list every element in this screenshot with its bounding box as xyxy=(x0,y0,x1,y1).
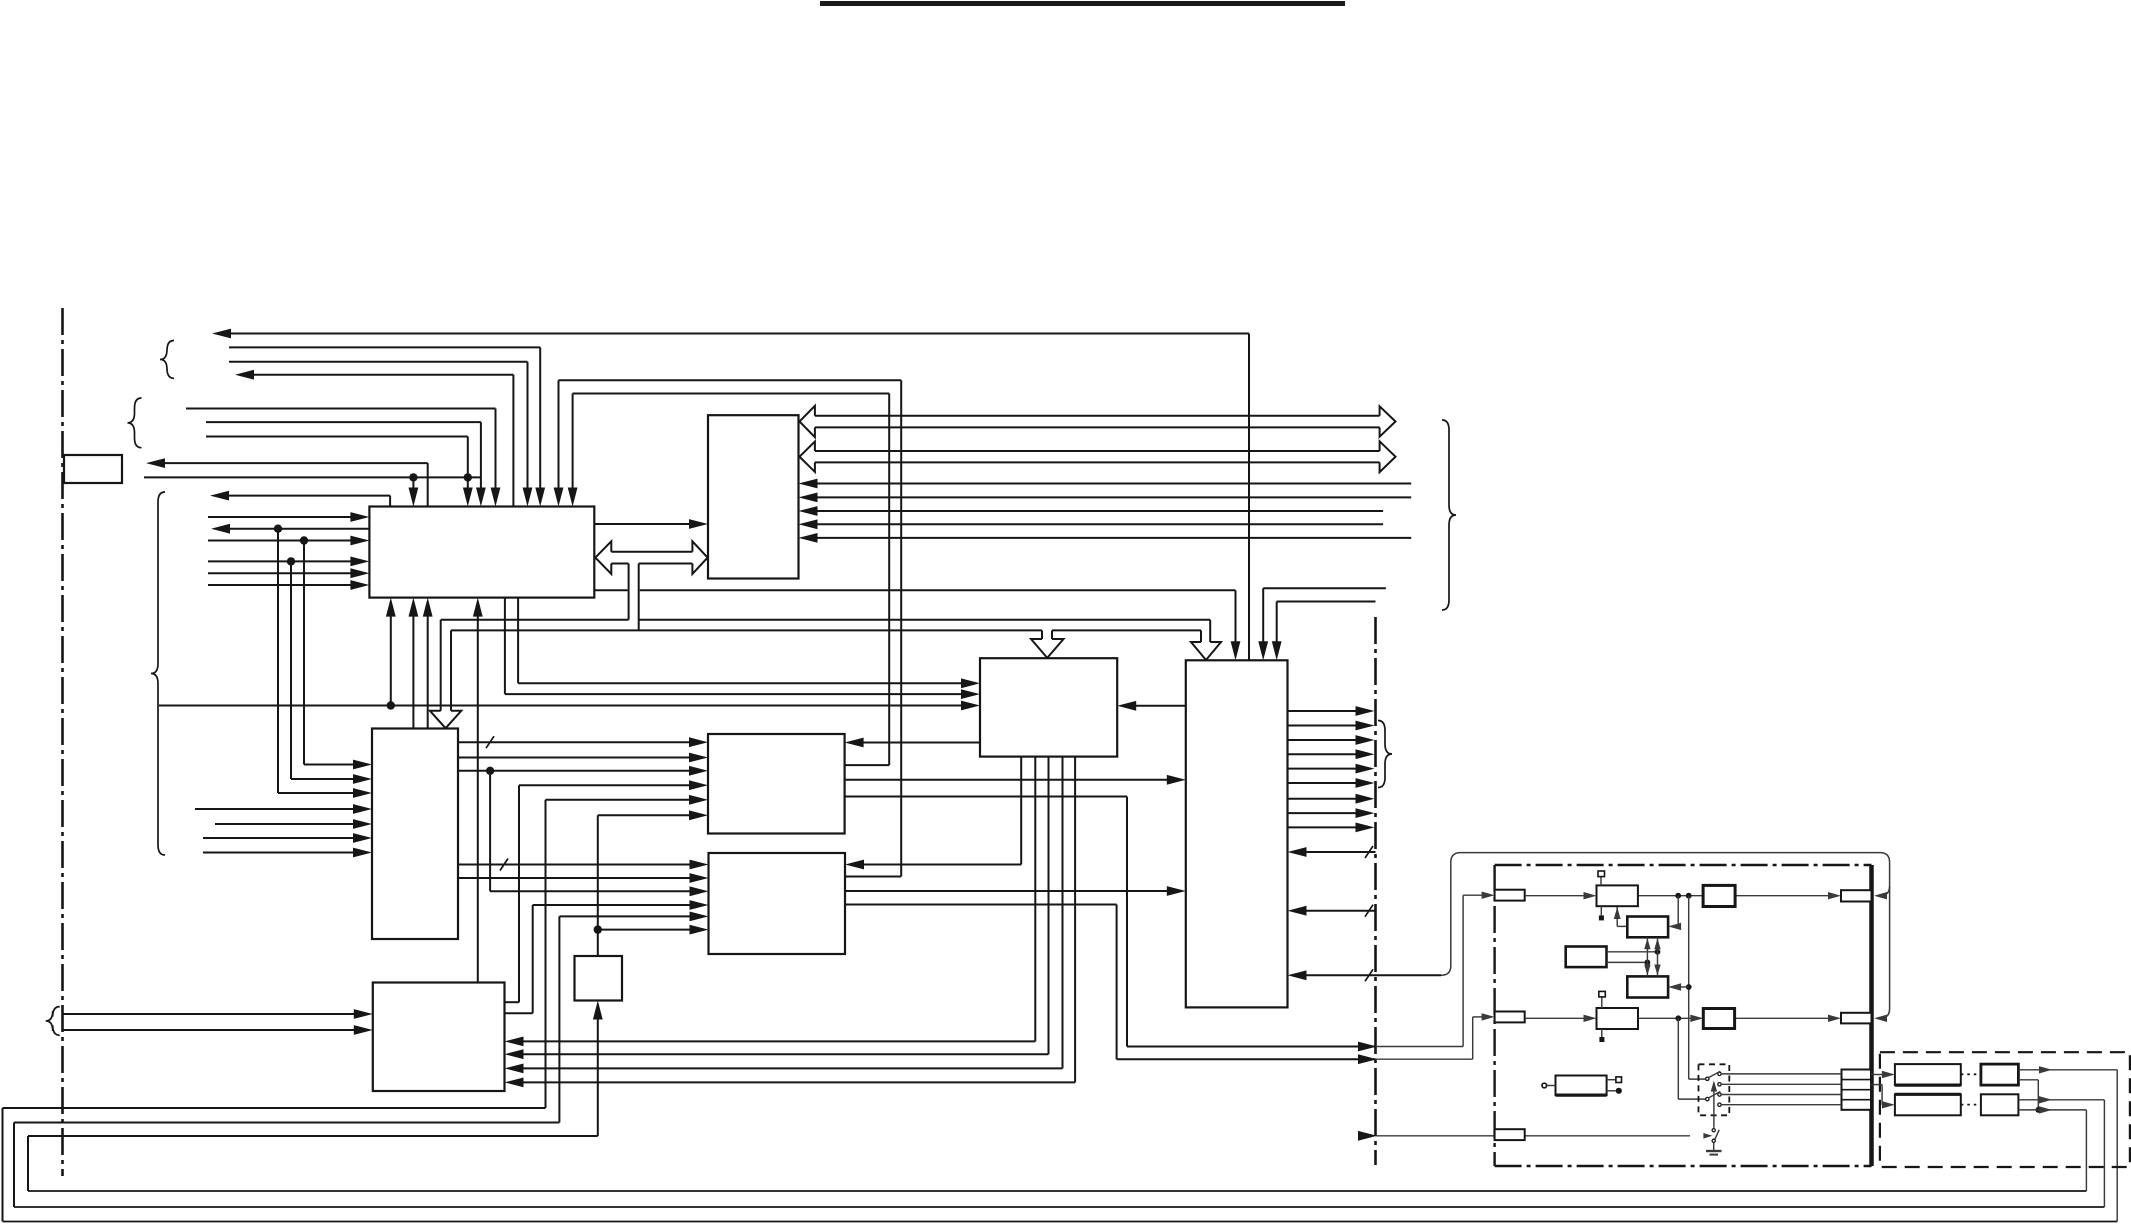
H brace xyxy=(46,1007,60,1036)
wire into G y891 xyxy=(490,890,691,892)
wire into H y1082 xyxy=(522,1081,1076,1083)
dashed box xyxy=(1880,1052,2130,1167)
bus width tick xyxy=(1365,905,1373,917)
wire up x1463 xyxy=(1462,895,1464,1046)
bus2 shaft bottom xyxy=(815,461,1380,463)
interface arrow xyxy=(1358,1054,1377,1064)
wire into E y809 xyxy=(195,808,355,810)
wire into D y852 xyxy=(1305,851,1376,853)
bottom line y1207 xyxy=(14,1206,2104,1208)
wire into G right y864 xyxy=(862,864,1021,866)
block E xyxy=(372,729,458,940)
wire TB1 to right stub1 xyxy=(1735,895,1830,897)
wire F down-right x1127 xyxy=(845,796,1127,798)
wire into E y764 xyxy=(304,764,355,766)
junction dot xyxy=(1675,1015,1681,1021)
wire into H y1041 xyxy=(522,1040,1036,1042)
wire drop x413 xyxy=(412,477,414,489)
wire E-G y864 xyxy=(458,864,692,866)
wire C-F y742 xyxy=(862,742,980,744)
relay R4 xyxy=(1627,976,1668,997)
right interface dash-dot line xyxy=(1374,617,1377,1165)
bus width tick xyxy=(486,736,494,748)
block R9 xyxy=(1895,1094,1961,1115)
junction dot xyxy=(409,473,417,481)
wire out A y529 xyxy=(228,528,369,530)
left interface dash-dot line xyxy=(61,308,64,1176)
wire x1678 to R2 xyxy=(1677,896,1679,927)
loop arrow into right stub1 xyxy=(1874,892,1887,899)
wire H-G x532 xyxy=(505,1012,533,1014)
wire R8 out top xyxy=(2018,1069,2117,1071)
wire H-F x519 xyxy=(518,785,520,1002)
dotted link row2 xyxy=(1961,1104,1981,1106)
wire C-H x1062 xyxy=(1062,757,1064,1069)
wire into F y800 xyxy=(546,799,692,801)
bus D branch right xyxy=(1209,620,1211,642)
bus width tick xyxy=(1365,846,1373,858)
wire vertical x1249 to block D xyxy=(1248,334,1250,661)
block G xyxy=(709,853,846,954)
wire x304 corner to E xyxy=(303,541,305,765)
wire G to x901 xyxy=(845,876,901,878)
wire into B y538 xyxy=(816,537,1412,539)
wire y380 from x901 xyxy=(559,379,902,381)
wire drop x572 xyxy=(572,394,574,490)
wire H-A x477 xyxy=(477,615,479,983)
loop wire xyxy=(1441,853,1890,1019)
wire R5 to TB2 xyxy=(1638,1017,1692,1019)
bus E branch left xyxy=(440,620,442,711)
wire cell1 to R7 xyxy=(1871,1074,1884,1076)
junction dot xyxy=(387,701,395,709)
wire stub1 to R1 xyxy=(1525,895,1586,897)
wire A to B xyxy=(594,523,691,525)
wire D-C y706 xyxy=(1134,705,1186,707)
block C xyxy=(980,658,1117,756)
wire into B y484 xyxy=(816,483,1412,485)
wire into B y524 xyxy=(816,523,1384,525)
bottom line y1191 xyxy=(28,1190,2086,1192)
wire out y463 xyxy=(163,462,428,464)
wire into F y815 xyxy=(598,814,691,816)
wire E-F y742 xyxy=(458,741,691,743)
bus A-B right head xyxy=(692,541,707,574)
switch pole2 xyxy=(1706,1097,1709,1100)
loop branch to right stub1 xyxy=(1879,886,1890,896)
junction dot xyxy=(300,536,308,544)
wire out y333 xyxy=(229,333,1249,335)
bus D branch left xyxy=(1200,630,1202,642)
bus2 left head xyxy=(800,442,815,472)
block D xyxy=(1186,660,1288,1007)
wire E-G y878 xyxy=(458,877,692,879)
unit dash-dot top xyxy=(1495,864,1872,866)
wire y588 from right xyxy=(1263,587,1386,589)
wire y393 from x889 xyxy=(573,393,890,395)
wire vertical x889 xyxy=(888,394,890,766)
wire R8 out bottom xyxy=(2018,1079,2038,1081)
wire into F y785 xyxy=(519,784,691,786)
wire drop x481 xyxy=(480,422,482,489)
unit dash-dot bottom xyxy=(1495,1165,1872,1167)
wire into C y694 xyxy=(505,693,963,695)
wire drop x513 xyxy=(512,375,514,507)
wire into H y1014 xyxy=(63,1013,356,1015)
wire into stub2 xyxy=(1473,1016,1484,1018)
unit dash-dot left xyxy=(1493,865,1495,1166)
wire into G y930 xyxy=(598,929,692,931)
wire y1108 left xyxy=(3,1107,546,1109)
junction dot xyxy=(287,557,295,565)
brace group 2 xyxy=(128,398,142,448)
brace group 1 xyxy=(160,341,174,379)
wire x291 corner to E xyxy=(290,561,292,779)
wire C-G x1021 xyxy=(1020,757,1022,865)
R1 top contact xyxy=(1600,876,1602,885)
junction dot xyxy=(486,767,494,775)
wire into E y793 xyxy=(278,792,355,794)
wire drop x390 xyxy=(389,496,391,507)
right stub 2 xyxy=(1841,1013,1872,1024)
bus top line b xyxy=(639,619,1210,621)
wire F to x889 xyxy=(845,764,890,766)
wire drop x1263 into D xyxy=(1262,588,1264,643)
wire R2-R4 b xyxy=(1657,937,1659,976)
wire H out y1002 xyxy=(505,1001,520,1003)
wire drop x428 xyxy=(427,463,429,506)
R5 bottom mark xyxy=(1601,1029,1603,1037)
wire D out y725 xyxy=(1288,725,1358,727)
bus A-B shaft bottom left xyxy=(611,563,628,565)
wire out y375 xyxy=(252,374,513,376)
wire x490 down xyxy=(489,771,491,892)
loop wire into D y975 xyxy=(1305,974,1442,976)
switch dashed box xyxy=(1699,1064,1730,1115)
actuator switch xyxy=(1712,1129,1715,1132)
bus1 left head xyxy=(800,406,815,437)
block R10 xyxy=(1981,1094,2019,1115)
interface arrow xyxy=(1358,1042,1377,1052)
R1 bottom mark xyxy=(1600,906,1602,915)
wire x1678 to switch pole2 xyxy=(1677,1018,1679,1099)
block H xyxy=(373,983,505,1092)
wire in A y585 xyxy=(208,584,352,586)
wire S-F x598 upper xyxy=(597,815,599,956)
wire into stub1 xyxy=(1463,894,1484,896)
wire y347 xyxy=(229,346,540,348)
wire A down x505 xyxy=(504,598,506,695)
wire D out y798 xyxy=(1288,798,1358,800)
bus1 right head xyxy=(1380,406,1396,436)
junction dot xyxy=(594,925,602,933)
interface arrow xyxy=(1358,1131,1377,1141)
wire TB2 to right stub2 xyxy=(1735,1017,1830,1019)
R5 top contact xyxy=(1601,997,1603,1008)
block R7 xyxy=(1895,1064,1961,1085)
connector 4-cell xyxy=(1842,1070,1872,1110)
wire stub2 to R5 xyxy=(1525,1017,1586,1019)
right stub 1 xyxy=(1841,890,1872,901)
wire into B y497 xyxy=(816,496,1412,498)
wire x278 corner to E xyxy=(277,529,279,793)
relay R3 xyxy=(1566,947,1607,968)
left stub 1 xyxy=(1495,890,1525,901)
wire loop-F x545 xyxy=(545,800,547,1108)
wire into H y1030 xyxy=(63,1029,356,1031)
wire in A y517 xyxy=(208,516,352,518)
wire out y496 xyxy=(227,495,390,497)
wire into B y511 xyxy=(816,510,1384,512)
wire drop x558 xyxy=(558,380,560,489)
wire into E y838 xyxy=(203,837,355,839)
wire up x1473 xyxy=(1472,1017,1474,1059)
wire in A y573 xyxy=(208,572,352,574)
left stub 3 xyxy=(1495,1129,1525,1140)
wire y1122 left xyxy=(14,1122,559,1124)
wire loop-G x559 xyxy=(558,916,560,1122)
wire y408 xyxy=(186,408,496,410)
wire A to D y590 xyxy=(594,589,627,591)
wire in A y540 xyxy=(208,540,352,542)
wire D out y754 xyxy=(1288,753,1358,755)
wire R2 up to R1 xyxy=(1617,925,1627,927)
wire drop x540 xyxy=(539,347,541,489)
wire vertical x901 xyxy=(900,380,902,876)
block A xyxy=(369,507,594,598)
junction dot xyxy=(464,473,472,481)
R6 right square xyxy=(1607,1079,1616,1081)
loop arrow into right stub2 xyxy=(1874,1015,1887,1022)
hairpin x2 xyxy=(2,1108,4,1222)
bus1 shaft top xyxy=(815,415,1380,417)
wire into D y911 xyxy=(1305,910,1376,912)
wire D out y813 xyxy=(1288,812,1358,814)
bus A-B left head xyxy=(595,541,611,574)
wire drop x495 xyxy=(495,409,497,490)
left stub 2 xyxy=(1495,1012,1525,1023)
arrow at switch xyxy=(1703,1133,1712,1139)
wire y705 long xyxy=(159,705,963,707)
relay R5 xyxy=(1597,1008,1639,1029)
dotted link row1 xyxy=(1961,1073,1981,1075)
wire D out y740 xyxy=(1288,739,1358,741)
bus C branch left xyxy=(1041,630,1043,639)
ground xyxy=(1706,1150,1722,1152)
wire y422 xyxy=(206,421,481,423)
wire into H y1068 xyxy=(522,1067,1063,1069)
wire C-H x1048 xyxy=(1048,757,1050,1055)
riser x2086 xyxy=(2085,1110,2087,1191)
wire x1688 down xyxy=(1688,896,1690,1079)
wire R10 out bottom xyxy=(2018,1109,2086,1111)
junction dot xyxy=(1686,984,1692,990)
bus C branch right xyxy=(1051,630,1053,639)
bus2 right head xyxy=(1380,441,1396,472)
wire to switch pole1 xyxy=(1689,1078,1705,1080)
block R8 xyxy=(1981,1064,2019,1085)
wire R10 out top xyxy=(2018,1099,2104,1101)
wire drop x1235 into D xyxy=(1235,590,1237,643)
wire F-D y780 xyxy=(845,779,1169,781)
wire D out y768 xyxy=(1288,768,1358,770)
bus E head xyxy=(430,711,461,728)
wire into H y1054 xyxy=(522,1053,1049,1055)
block TB1 xyxy=(1703,885,1735,906)
wire R3 lower xyxy=(1607,961,1648,963)
bus T vertical left xyxy=(628,564,630,620)
wire C-H x1075 xyxy=(1074,757,1076,1083)
title underline xyxy=(820,1,1345,6)
junction dot xyxy=(1645,960,1651,966)
wire into C y683 xyxy=(518,682,963,684)
relay R2 xyxy=(1627,917,1668,938)
switch pole1 xyxy=(1706,1077,1709,1080)
wire D out y783 xyxy=(1288,782,1358,784)
wire y1059 to box xyxy=(1117,1058,1376,1060)
wire C-H x1035 xyxy=(1034,757,1036,1042)
junction dot xyxy=(274,525,282,533)
wire y1136 to switch xyxy=(1376,1135,1691,1137)
wire y1136 left xyxy=(28,1135,598,1137)
switch throw wires xyxy=(1722,1073,1842,1075)
junction dot xyxy=(2035,1107,2041,1113)
junction dot xyxy=(1686,893,1692,899)
big right brace xyxy=(1442,420,1456,610)
wire A-E x427 xyxy=(427,615,429,729)
wire G-D y891 xyxy=(845,890,1169,892)
bus2 shaft top xyxy=(815,450,1380,452)
wire R3 upper xyxy=(1607,951,1658,953)
block F xyxy=(708,734,845,834)
wire y362 xyxy=(229,361,528,363)
wire E-F y757 xyxy=(458,757,691,759)
bus C head xyxy=(1031,639,1064,658)
wire D out y827 xyxy=(1288,826,1358,828)
bus A-B shaft bottom right xyxy=(639,563,693,565)
R6 right dot xyxy=(1607,1090,1616,1092)
bus E branch right xyxy=(450,630,452,710)
wire y477 xyxy=(144,476,481,478)
wire in A y561 xyxy=(208,560,352,562)
wire y1046 to box xyxy=(1127,1046,1376,1048)
wire drop x527 xyxy=(527,362,529,490)
wire up into A x390 xyxy=(390,615,392,706)
switch linkage xyxy=(1713,1083,1715,1128)
block S xyxy=(575,956,623,1001)
wire to R4 xyxy=(1679,986,1689,988)
bus1 shaft bottom xyxy=(815,426,1380,428)
block B xyxy=(708,415,799,578)
wire into E y779 xyxy=(291,778,355,780)
wire cell2 to R9 xyxy=(1871,1084,1882,1086)
wire R2-R4 a xyxy=(1646,937,1648,976)
unit solid right edge xyxy=(1869,865,1874,1166)
bus width tick xyxy=(1365,969,1373,981)
hairpin x14 xyxy=(13,1123,15,1208)
junction dot xyxy=(1675,893,1681,899)
wire into E y852 xyxy=(203,852,355,854)
bus T vertical right xyxy=(638,564,640,631)
big left brace xyxy=(151,492,165,855)
wire drop x1277 into D xyxy=(1276,602,1278,644)
left connector stub xyxy=(64,455,122,483)
relay R1 xyxy=(1597,885,1638,906)
wire G down-right x1117 xyxy=(845,904,1117,906)
small right brace xyxy=(1378,721,1392,788)
wire into E y824 xyxy=(215,823,355,825)
R6 left circle xyxy=(1542,1083,1547,1088)
wire R1 to TB1 xyxy=(1638,895,1703,897)
block TB2 xyxy=(1703,1009,1734,1029)
bottom line y1221 xyxy=(3,1221,2118,1223)
wire E-F y771 xyxy=(458,770,691,772)
junction dot xyxy=(1655,949,1661,955)
hairpin x28 xyxy=(27,1136,29,1191)
wire into G y905 xyxy=(533,904,692,906)
bus width tick xyxy=(500,859,508,871)
riser x2104 xyxy=(2103,1100,2105,1207)
wire drop x468 xyxy=(467,437,469,490)
bus A-B shaft top xyxy=(611,551,692,553)
wire y436 xyxy=(206,436,468,438)
wire A-E x413 xyxy=(412,615,414,729)
wire S bottom xyxy=(597,1018,599,1137)
bus D head xyxy=(1191,642,1221,660)
bus bottom line a xyxy=(451,629,1042,631)
wire D out y711 xyxy=(1288,710,1358,712)
wire A down x518 xyxy=(517,598,519,684)
wire into G y916 xyxy=(559,915,691,917)
osc R6 xyxy=(1556,1076,1607,1096)
riser x2117 xyxy=(2116,1070,2118,1222)
bus top line a xyxy=(441,619,629,621)
wire y601 from dash-dot xyxy=(1277,601,1376,603)
bus bottom line b xyxy=(1052,629,1201,631)
